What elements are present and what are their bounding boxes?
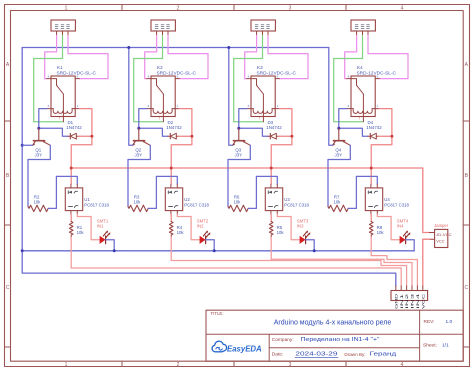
relay K4 SRD-12VDC-SL-C: [351, 76, 375, 117]
node: LED cathode junction on GND bus: [213, 249, 216, 252]
node: collector junction: [237, 127, 240, 130]
opto-coupler U4 PC817: [365, 188, 382, 211]
node: VCC rail junction: [170, 167, 173, 170]
wire: base to resistor R6: [228, 145, 250, 206]
wire: GND top bus: [22, 47, 329, 49]
svg-text:2: 2: [177, 5, 180, 11]
wire: coil+ junction up to relay pin1: [279, 109, 292, 137]
svg-text:10k: 10k: [234, 199, 242, 204]
node: LED cathode junction on GND bus: [113, 249, 116, 252]
svg-text:SRD-12VDC-SL-C: SRD-12VDC-SL-C: [157, 70, 197, 75]
relay coil: [253, 109, 272, 114]
diode D1 1N4742: [68, 135, 79, 137]
wire: collector node to diode cathode: [39, 128, 68, 136]
node: diode anode junction: [90, 135, 93, 138]
wire: magenta pin3 to relay NC contact: [368, 36, 408, 79]
LED SMT3 indicator: [300, 236, 306, 244]
wire: opto cathode pin to R8: [370, 214, 372, 221]
wire: relay pin5 to transistor collector: [339, 109, 347, 129]
connector header P3 (relay contacts): [251, 20, 275, 31]
opto-coupler U2 PC817: [165, 188, 182, 211]
opto internal transistor: [169, 206, 173, 208]
wire: LED cathode to GND bus: [406, 240, 415, 251]
svg-text:4: 4: [401, 5, 404, 11]
svg-text:PC817 C318: PC817 C318: [384, 202, 409, 207]
opto-coupler U1 PC817: [65, 188, 82, 211]
connector header P4 (relay contacts): [351, 20, 375, 31]
svg-text:JD-VCC: JD-VCC: [436, 232, 452, 237]
svg-text:EasyEDA: EasyEDA: [227, 345, 262, 354]
transistor Q1 J3Y: [38, 128, 40, 140]
resistor R3 10k (horizontal): [128, 205, 148, 211]
relay coil: [153, 109, 172, 114]
wire: VCC rail (opto anodes, to jumper): [71, 168, 429, 233]
EasyEDA logo: [212, 341, 226, 352]
wire: opto emitter pin to LED SMT4 anode: [377, 214, 399, 240]
wire: coil+ junction down to VCC rail and opto anode: [271, 136, 292, 184]
connector header P2 (relay contacts): [151, 20, 175, 31]
svg-text:1N4742: 1N4742: [266, 125, 282, 130]
svg-text:IN4: IN4: [397, 223, 404, 228]
svg-text:1N4742: 1N4742: [166, 125, 182, 130]
resistor R1 10k (vertical): [69, 222, 73, 238]
node: riser junction on top bus: [127, 46, 130, 49]
svg-text:Company:: Company:: [272, 337, 294, 343]
svg-text:PC817 C318: PC817 C318: [84, 202, 109, 207]
svg-text:J3Y: J3Y: [335, 152, 343, 157]
border column ticks bottom: [122, 361, 346, 366]
svg-text:10k: 10k: [334, 199, 342, 204]
svg-text:10k: 10k: [77, 230, 85, 235]
connector P2 pin name marks: [155, 25, 158, 29]
connector P4 pin name marks: [355, 25, 358, 29]
node: diode anode junction: [290, 135, 293, 138]
opto internal LED: [169, 191, 172, 194]
connector P1 pin name marks: [55, 25, 58, 29]
wire: coil+ junction up to relay pin1: [179, 109, 192, 137]
svg-text:IN2: IN2: [404, 292, 409, 309]
svg-text:TITLE:: TITLE:: [211, 311, 224, 316]
LED SMT2 indicator: [200, 236, 206, 244]
svg-text:10k: 10k: [377, 230, 385, 235]
opto internal LED: [369, 191, 372, 194]
node: diode anode junction: [390, 135, 393, 138]
wire: R6 to opto collector pin: [248, 176, 277, 208]
node: junction left bus / emitter ch1: [21, 144, 24, 147]
node: LED cathode junction on GND bus: [313, 249, 316, 252]
wire: diode anode to coil+ junction: [78, 135, 92, 137]
wire: LED cathode to GND bus: [306, 240, 315, 251]
opto internal LED: [269, 191, 272, 194]
svg-text:IN4: IN4: [415, 292, 420, 309]
LED SMT2 emission arrows: [203, 232, 209, 238]
wire: LED-cathode GND bus: [22, 250, 414, 252]
connector header P1 (relay contacts): [51, 20, 75, 31]
wire: R2 to opto collector pin: [48, 176, 77, 208]
svg-text:SRD-12VDC-SL-C: SRD-12VDC-SL-C: [257, 70, 297, 75]
wire: relay pin5 to transistor collector: [39, 109, 47, 129]
node: diode anode junction: [190, 135, 193, 138]
svg-text:4: 4: [401, 362, 404, 368]
wire: jumper VCC pin to connector VCC: [423, 239, 430, 286]
node: riser junction on top bus: [227, 46, 230, 49]
relay coil: [353, 109, 372, 114]
wire: emitter riser to top GND bus: [229, 48, 233, 146]
resistor R6 10k (horizontal): [228, 205, 248, 211]
svg-text:10k: 10k: [277, 230, 285, 235]
LED SMT4 emission arrows: [403, 232, 409, 238]
wire: magenta pin1 to relay NO contact: [245, 36, 257, 79]
wire: collector node to diode cathode: [139, 128, 168, 136]
node: collector junction: [137, 127, 140, 130]
svg-text:2: 2: [177, 362, 180, 368]
svg-text:IN3: IN3: [410, 292, 415, 309]
wire: collector node to diode cathode: [239, 128, 268, 136]
opto internal transistor: [269, 206, 273, 208]
wire: emitter to left GND bus: [22, 144, 33, 146]
relay coil: [53, 109, 72, 114]
wire: emitter riser to top GND bus: [129, 48, 133, 146]
wire: magenta pin3 to relay NC contact: [168, 36, 208, 79]
svg-text:2024-03-29: 2024-03-29: [295, 352, 337, 358]
resistor R7 10k (horizontal): [328, 205, 348, 211]
svg-text:PC817 C318: PC817 C318: [184, 202, 209, 207]
svg-text:VCC: VCC: [420, 294, 425, 309]
svg-text:1/1: 1/1: [442, 342, 449, 348]
wire: magenta pin1 to relay NO contact: [345, 36, 357, 79]
LED SMT1 indicator: [100, 236, 106, 244]
svg-text:IN1: IN1: [399, 292, 404, 309]
connector J1 Jamper JD-VCC/VCC: [435, 229, 448, 247]
svg-text:10k: 10k: [177, 230, 185, 235]
svg-text:Drawn By:: Drawn By:: [344, 352, 365, 357]
wire: green pin2 to relay common: [134, 36, 164, 122]
wire: base to resistor R7: [328, 145, 350, 206]
wire: green pin2 to relay common: [334, 36, 364, 122]
wire: opto emitter pin to LED SMT3 anode: [277, 214, 299, 240]
svg-text:Jamper: Jamper: [434, 223, 449, 228]
wire: coil+ junction up to relay pin1: [379, 109, 392, 137]
node: collector junction: [37, 127, 40, 130]
svg-text:1N4742: 1N4742: [366, 125, 382, 130]
wire: R3 to opto collector pin: [148, 176, 177, 208]
wire: emitter riser to top GND bus: [329, 48, 333, 146]
wire: R7 to opto collector pin: [348, 176, 377, 208]
relay switch symbol: [251, 79, 263, 122]
svg-text:J3Y: J3Y: [135, 152, 143, 157]
wire: opto cathode pin to R1: [70, 214, 72, 221]
border row ticks right: [463, 121, 469, 347]
wire: relay pin5 to transistor collector: [139, 109, 147, 129]
svg-text:IN1: IN1: [97, 223, 104, 228]
svg-text:J3Y: J3Y: [35, 152, 43, 157]
svg-text:10k: 10k: [34, 199, 42, 204]
relay switch symbol: [51, 79, 63, 122]
wire: base to resistor R2: [28, 145, 50, 206]
opto internal transistor: [369, 206, 373, 208]
diode D3 1N4742: [268, 135, 279, 137]
wire: opto cathode pin to R4: [170, 214, 172, 221]
border row ticks left: [5, 121, 11, 347]
wire: base to resistor R3: [128, 145, 150, 206]
wire: coil+ junction up to relay pin1: [79, 109, 92, 137]
wire: opto cathode pin to R5: [270, 214, 272, 221]
wire: magenta pin3 to relay NC contact: [268, 36, 308, 79]
svg-text:3: 3: [289, 5, 292, 11]
wire: green pin2 to relay common: [34, 36, 64, 122]
resistor R4 10k (vertical): [169, 222, 173, 238]
svg-text:Геранд: Геранд: [370, 352, 398, 358]
svg-text:C: C: [6, 285, 10, 291]
svg-text:SRD-12VDC-SL-C: SRD-12VDC-SL-C: [357, 70, 397, 75]
svg-text:J3Y: J3Y: [235, 152, 243, 157]
relay switch symbol: [351, 79, 363, 122]
node: junction left bus / LED bus: [21, 249, 24, 252]
svg-text:GND: GND: [393, 294, 398, 309]
wire: opto emitter pin to LED SMT2 anode: [177, 214, 199, 240]
wire: magenta pin3 to relay NC contact: [68, 36, 108, 79]
wire: magenta pin1 to relay NO contact: [145, 36, 157, 79]
border column ticks top: [122, 5, 346, 11]
svg-text:Arduino модуль 4-х канального: Arduino модуль 4-х канального реле: [274, 319, 392, 326]
LED SMT4 indicator: [400, 236, 406, 244]
wire: GND left bus vertical + bottom run to connector GND: [22, 48, 396, 287]
svg-text:IN3: IN3: [297, 223, 304, 228]
relay K3 SRD-12VDC-SL-C: [251, 76, 275, 117]
wire: R4 to input pin IN2: [171, 237, 406, 286]
wire: opto emitter pin to LED SMT1 anode: [77, 214, 99, 240]
opto-coupler U3 PC817: [265, 188, 282, 211]
wire: R1 to input pin IN1: [71, 237, 401, 286]
svg-text:Sheet:: Sheet:: [423, 342, 437, 348]
wire: R8 to input pin IN4: [371, 237, 417, 286]
transistor Q3 J3Y: [238, 128, 240, 140]
transistor Q4 J3Y: [338, 128, 340, 140]
wire: diode anode to coil+ junction: [278, 135, 292, 137]
connector P3 pin name marks: [255, 25, 258, 29]
svg-text:1N4742: 1N4742: [66, 125, 82, 130]
transistor Q2 J3Y: [138, 128, 140, 140]
title block frame: [206, 310, 463, 361]
wire: diode anode to coil+ junction: [378, 135, 392, 137]
wire: green pin2 to relay common: [234, 36, 264, 122]
wire: R5 to input pin IN3: [271, 237, 412, 286]
LED SMT1 emission arrows: [103, 232, 109, 238]
node: collector junction: [337, 127, 340, 130]
resistor R2 10k (horizontal): [28, 205, 48, 211]
svg-text:C: C: [464, 285, 468, 291]
connector P5 control header GND/IN1-4/VCC: [391, 291, 428, 301]
opto internal LED: [68, 191, 71, 194]
svg-text:Date:: Date:: [272, 352, 283, 358]
svg-text:SRD-12VDC-SL-C: SRD-12VDC-SL-C: [57, 70, 97, 75]
wire: magenta pin1 to relay NO contact: [45, 36, 57, 79]
wire: diode anode to coil+ junction: [178, 135, 192, 137]
svg-text:1: 1: [65, 5, 68, 11]
wire: coil+ junction down to VCC rail and opto anode: [371, 136, 392, 184]
svg-text:REV:: REV:: [424, 319, 435, 325]
svg-text:PC817 C318: PC817 C318: [284, 202, 309, 207]
wire: collector node to diode cathode: [339, 128, 368, 136]
svg-text:10k: 10k: [134, 199, 142, 204]
resistor R5 10k (vertical): [269, 222, 273, 238]
resistor R8 10k (vertical): [369, 222, 373, 238]
svg-text:VCC: VCC: [436, 239, 445, 244]
opto internal transistor: [69, 206, 73, 208]
diode D2 1N4742: [168, 135, 179, 137]
diode D4 1N4742: [368, 135, 379, 137]
wire: LED cathode to GND bus: [206, 240, 215, 251]
node: VCC rail junction: [370, 167, 373, 170]
svg-text:1: 1: [65, 362, 68, 368]
wire: relay pin5 to transistor collector: [239, 109, 247, 129]
relay K2 SRD-12VDC-SL-C: [151, 76, 175, 117]
node: VCC rail junction: [270, 167, 273, 170]
wire: coil+ junction down to VCC rail and opto anode: [171, 136, 192, 184]
wire: coil+ junction down to VCC rail and opto anode: [71, 136, 92, 184]
LED SMT3 emission arrows: [303, 232, 309, 238]
wire: LED cathode to GND bus: [106, 240, 115, 251]
svg-text:1.0: 1.0: [446, 319, 453, 325]
svg-text:Переделано на IN1-4 "+": Переделано на IN1-4 "+": [301, 337, 380, 343]
relay K1 SRD-12VDC-SL-C: [51, 76, 75, 117]
node: VCC rail junction: [70, 167, 73, 170]
relay switch symbol: [151, 79, 163, 122]
svg-text:3: 3: [289, 362, 292, 368]
svg-text:IN2: IN2: [197, 223, 204, 228]
